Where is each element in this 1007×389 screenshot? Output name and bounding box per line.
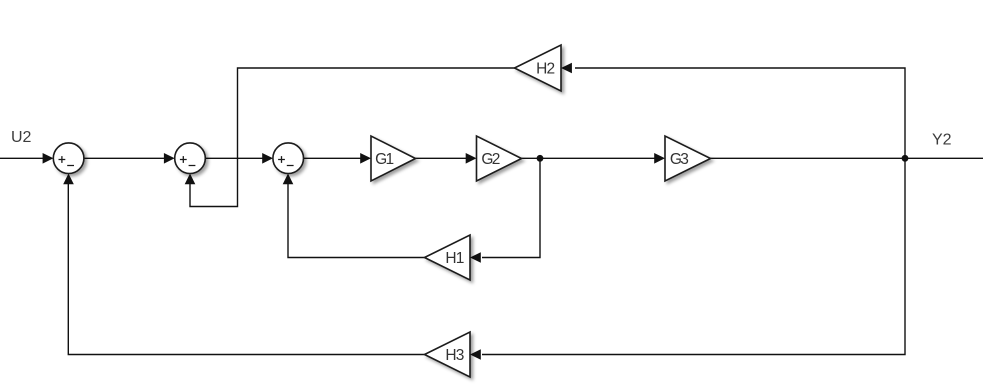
wire H3 output to sum S1 bottom (63, 174, 424, 355)
node B junction dot on output line (902, 155, 909, 162)
node A junction dot after G2 (537, 155, 544, 162)
gain block H2 (515, 45, 562, 91)
wire sum S2 to sum S3 (205, 153, 273, 164)
label Y2 (932, 132, 952, 149)
svg-text:H3: H3 (445, 347, 464, 364)
wire H1 output to sum S3 bottom (283, 174, 425, 258)
wire sum S1 to sum S2 (84, 153, 175, 164)
summing junction S1 (53, 143, 84, 174)
label U2 (11, 129, 32, 146)
wire sum S3 to gain G1 (303, 153, 371, 164)
wire gain G3 to output Y2 through node B (711, 157, 984, 159)
svg-text:G1: G1 (375, 151, 394, 168)
svg-text:G3: G3 (670, 151, 689, 168)
svg-text:G2: G2 (481, 151, 500, 168)
wire input U2 to sum S1 (0, 153, 53, 164)
wire node A down and left to H1 input (470, 158, 540, 262)
summing junction S3 (273, 143, 304, 174)
gain block G1 (371, 136, 416, 181)
svg-text:H2: H2 (536, 61, 555, 78)
svg-text:U2: U2 (11, 129, 32, 146)
gain block G2 (477, 136, 522, 181)
summing junction S2 (175, 143, 206, 174)
gain block H1 (425, 235, 471, 280)
wire node B down and left to H3 input (470, 158, 905, 359)
gain block G3 (665, 136, 711, 181)
wire H2 output to sum S2 bottom (185, 68, 515, 207)
svg-text:H1: H1 (445, 250, 464, 267)
wire node B up and left to H2 input (561, 63, 905, 159)
wire gain G1 to gain G2 (416, 153, 477, 164)
svg-text:Y2: Y2 (932, 132, 952, 149)
gain block H3 (425, 332, 471, 377)
wire gain G2 to gain G3 through node A (522, 153, 666, 164)
